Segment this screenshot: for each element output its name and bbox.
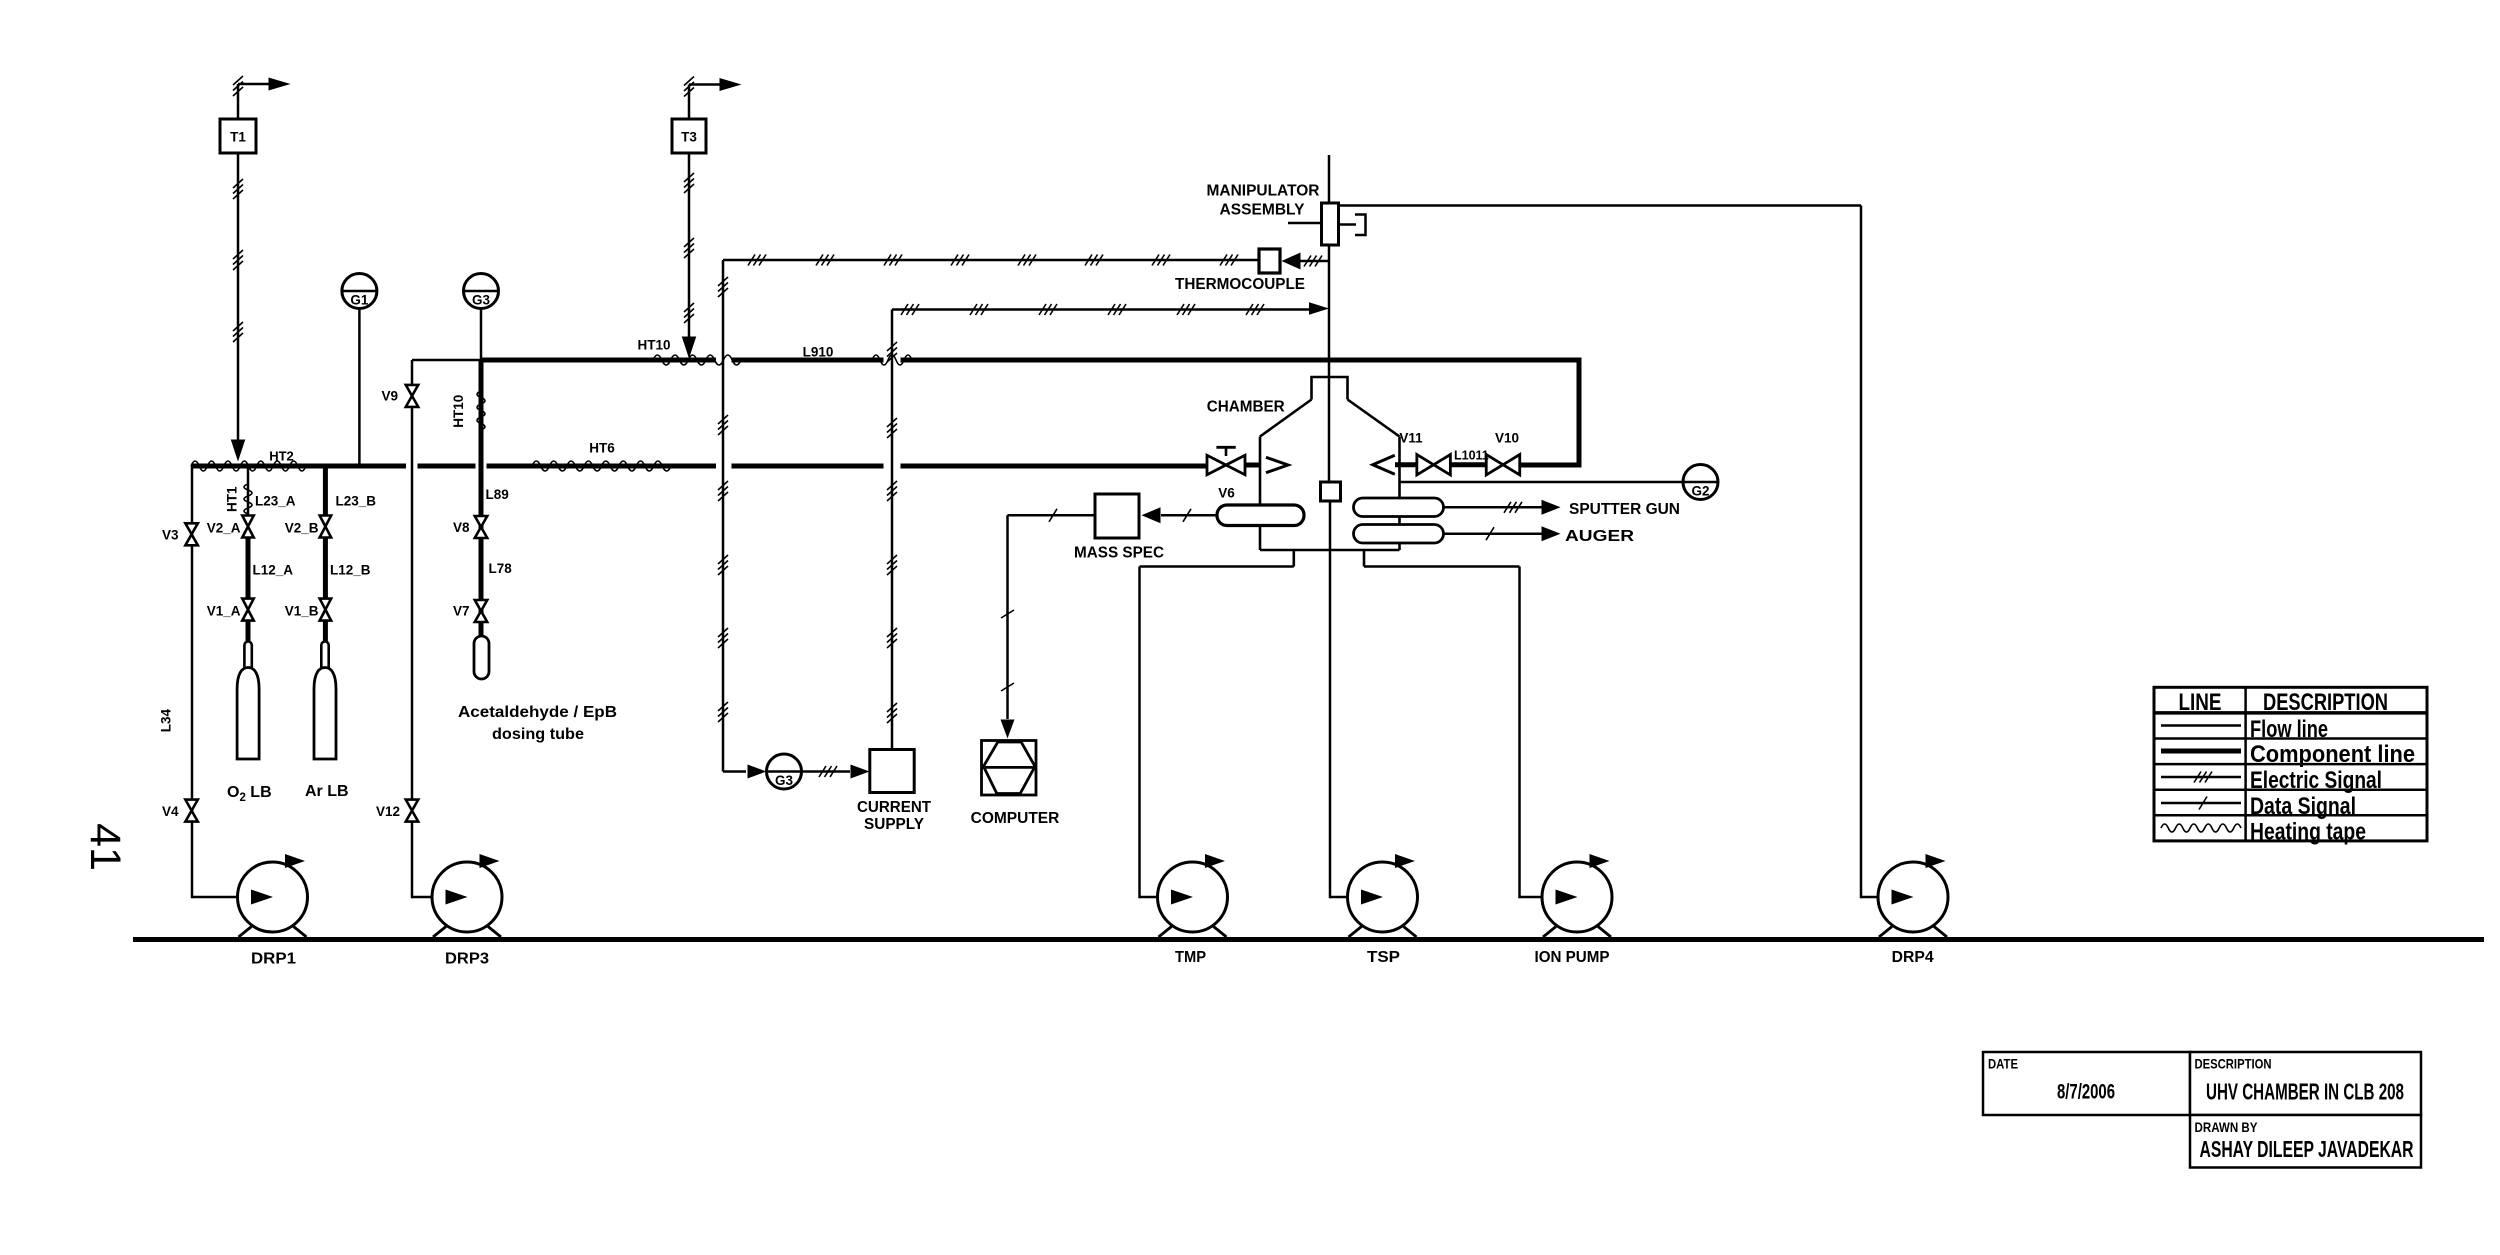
arrow into gauge G3 bottom [748,765,767,779]
svg-text:LINE: LINE [2179,689,2222,716]
valve V1_B [320,599,332,621]
svg-text:Component line: Component line [2250,741,2415,768]
pump DRP3 [432,862,502,932]
svg-text:V1_A: V1_A [207,604,241,619]
pump ION PUMP [1542,862,1612,932]
computer symbol [982,741,1037,796]
valve V2_B [320,516,332,538]
svg-text:HT10: HT10 [451,395,466,428]
svg-text:AUGER: AUGER [1565,528,1634,545]
svg-text:UHV CHAMBER IN CLB 208: UHV CHAMBER IN CLB 208 [2206,1079,2404,1105]
flow line chamber to TMP [1138,567,1141,899]
gauge G1 [342,274,377,309]
gauge G3 stem [480,305,483,360]
component line L12_A [246,538,251,600]
arrow into L910 line [682,337,697,359]
box CURRENT SUPPLY [870,750,914,793]
valve V7 [475,600,488,622]
svg-text:ION PUMP: ION PUMP [1535,949,1610,966]
svg-text:V4: V4 [162,804,179,819]
line manipulator to DRP4 [1339,204,1862,207]
component line L910 (y=360) [481,358,716,363]
heating tape HT10 vertical [477,391,485,430]
svg-text:V12: V12 [376,804,400,819]
instrument box T3 [672,119,706,153]
arrow into thermocouple [1282,253,1301,270]
svg-text:L1011: L1011 [1454,448,1489,462]
electric signal thermocouple to controller [723,259,1261,262]
svg-text:V1_B: V1_B [285,604,319,619]
heating tape on HT2 [191,461,306,471]
electric signal current supply to chamber [891,310,894,750]
title block frame [1983,1052,2190,1115]
svg-text:V2_A: V2_A [207,521,241,536]
manipulator right stub and bracket [1339,223,1357,226]
pump DRP1 [238,862,308,932]
valve V2_A [242,516,254,538]
chevron arrow into chamber right [1373,455,1395,474]
pump TSP [1348,862,1418,932]
arrow into HT2 line [231,440,246,462]
svg-text:L910: L910 [803,345,834,360]
legend table frame [2154,687,2427,841]
component line HT2-HT6 (y=466) [192,464,406,469]
flow line L34 to DRP1 [191,466,194,898]
svg-text:8/7/2006: 8/7/2006 [2057,1081,2115,1104]
flow line junction y=360 [412,359,481,362]
electric signal G3 to current supply [802,770,851,773]
svg-text:DRP3: DRP3 [445,951,489,968]
component line L89-L78 [479,360,484,638]
instrument box T1 [220,119,256,153]
svg-text:L12_B: L12_B [330,563,371,578]
chamber bottom tabs [1293,550,1296,567]
chamber centerline upper [1328,155,1331,482]
pump TMP [1158,862,1228,932]
legend data signal sample [2161,802,2241,805]
svg-text:Flow line: Flow line [2250,716,2328,743]
valve V1_A [242,599,254,621]
gas bottle O2 [244,642,251,671]
arrow into computer [1001,720,1015,739]
legend heating tape sample [2161,824,2241,832]
svg-text:COMPUTER: COMPUTER [971,810,1060,827]
electric signal to sputter gun [1444,506,1543,509]
heating tape HT1 [244,484,252,514]
component line V11 to chamber [1395,462,1417,467]
svg-text:V6: V6 [1218,486,1235,501]
valve V6 with handle [1225,448,1228,456]
svg-text:G3: G3 [775,773,794,788]
svg-text:L78: L78 [489,561,513,576]
arrow sputter gun [1542,500,1561,515]
sputter gun capsule [1354,498,1444,517]
svg-text:T3: T3 [681,130,697,145]
chamber centerline lower [1329,501,1332,898]
data signal to auger [1444,532,1543,535]
svg-text:V9: V9 [381,389,398,404]
svg-text:CHAMBER: CHAMBER [1207,399,1285,416]
component line to O2 bottle [246,621,251,649]
svg-text:HT1: HT1 [225,486,240,512]
svg-text:V7: V7 [453,604,470,619]
pump DRP4 [1878,862,1948,932]
svg-text:Ar LB: Ar LB [305,783,349,800]
svg-text:V10: V10 [1495,431,1519,446]
electric signal line T1 to HT2 [237,153,240,440]
svg-text:DESCRIPTION: DESCRIPTION [2195,1056,2272,1072]
heating tape on L910 at crossing [872,355,912,365]
component line V6 to chamber [1245,463,1260,468]
svg-text:SPUTTER GUN: SPUTTER GUN [1569,501,1680,518]
svg-text:DRP4: DRP4 [1892,949,1934,966]
flow line L23_A [247,466,250,516]
svg-text:DATE: DATE [1988,1056,2018,1072]
instrument box T3 top arrow line [688,85,691,120]
svg-text:DESCRIPTION: DESCRIPTION [2263,689,2388,716]
svg-text:Data Signal: Data Signal [2250,793,2356,820]
data signal mass spec to computer [1008,514,1096,517]
svg-text:L23_B: L23_B [336,494,377,509]
svg-text:HT6: HT6 [589,441,615,456]
svg-text:MASS SPEC: MASS SPEC [1074,544,1164,561]
svg-text:Acetaldehyde / EpB: Acetaldehyde / EpB [458,704,617,721]
svg-text:41: 41 [81,823,129,871]
svg-text:V3: V3 [162,528,179,543]
component line L12_B [323,538,328,600]
box MASS SPEC [1095,494,1139,538]
valve V11 [1417,455,1451,475]
svg-text:T1: T1 [230,130,246,145]
arrow into current supply [851,765,870,779]
svg-text:TSP: TSP [1367,949,1400,966]
legend flow line sample [2161,724,2241,727]
heating tape on HT6 [532,461,671,471]
valve V3 [185,523,198,545]
svg-text:Electric Signal: Electric Signal [2250,767,2382,794]
component line to Ar bottle [323,621,328,649]
sample holder square [1321,482,1341,501]
component line L23_B [323,466,328,516]
svg-text:G1: G1 [350,293,369,308]
svg-text:DRAWN BY: DRAWN BY [2195,1119,2259,1135]
thermocouple square [1259,249,1280,273]
svg-text:Heating tape: Heating tape [2250,819,2366,846]
valve V10 [1486,455,1520,475]
svg-text:TMP: TMP [1175,949,1206,966]
electric signal line T3 to L910 [688,153,691,338]
instrument box T1 top arrow line [237,84,240,119]
chamber outline [1312,377,1348,400]
svg-text:G2: G2 [1691,484,1709,499]
dosing tube capsule [474,636,489,679]
arrow into chamber centerline [1309,302,1329,315]
svg-text:V8: V8 [453,520,470,535]
heating tape on L910 left [653,355,741,365]
flow line V9-V12 to DRP3 [411,360,414,898]
gauge G3 [464,274,499,309]
valve V9 [406,385,419,407]
svg-text:dosing tube: dosing tube [492,726,584,743]
valve V4 [185,800,198,822]
svg-text:CURRENT: CURRENT [857,799,932,816]
flow line chamber to ION PUMP [1518,567,1521,899]
svg-text:V11: V11 [1399,431,1423,446]
manipulator left stub [1288,222,1322,225]
legend component line sample [2161,749,2241,754]
gas bottle Ar [321,642,328,671]
svg-text:L12_A: L12_A [253,563,294,578]
manipulator rectangle [1322,203,1339,245]
gauge G2 [1683,465,1718,500]
svg-text:DRP1: DRP1 [251,951,296,968]
svg-text:THERMOCOUPLE: THERMOCOUPLE [1175,276,1305,293]
svg-text:L34: L34 [158,708,173,732]
component line L1011 [1450,462,1486,467]
svg-text:L89: L89 [486,487,509,502]
svg-text:HT2: HT2 [269,449,294,464]
mass spec port capsule [1217,505,1304,526]
gauge G3 bottom [767,754,802,789]
valve V12 [406,800,419,822]
svg-text:MANIPULATOR: MANIPULATOR [1207,183,1320,200]
ground baseline [133,937,2484,942]
svg-text:V2_B: V2_B [285,521,319,536]
svg-text:ASHAY DILEEP JAVADEKAR: ASHAY DILEEP JAVADEKAR [2200,1136,2414,1162]
svg-text:L23_A: L23_A [255,494,296,509]
data signal capsule to mass spec [1161,514,1217,517]
flow line to G2 [1400,481,1685,484]
electric signal chamber to thermocouple [1300,260,1329,263]
auger capsule [1354,525,1444,544]
svg-text:ASSEMBLY: ASSEMBLY [1220,202,1306,219]
arrow auger [1542,526,1561,541]
valve V8 [475,516,488,538]
arrow into mass spec [1142,507,1161,523]
svg-text:HT10: HT10 [637,338,670,353]
component line L910 drop [1520,360,1582,465]
gauge G1 stem [358,305,361,466]
chevron arrow into chamber left [1266,457,1288,472]
svg-text:SUPPLY: SUPPLY [864,816,925,833]
legend electric signal sample [2161,776,2241,779]
svg-text:G3: G3 [472,293,491,308]
